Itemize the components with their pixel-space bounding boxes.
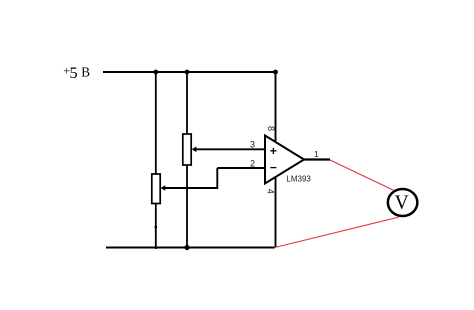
potentiometer R1 body [183, 134, 191, 165]
wire op-amp output stub [304, 158, 330, 160]
svg-text:В: В [81, 65, 90, 80]
wire pin2 horizontal segment [217, 167, 265, 169]
wire middle branch vertical through R1 [186, 72, 188, 248]
wire red measurement lead from ground rail to voltmeter [275, 217, 399, 247]
svg-text:2: 2 [250, 158, 255, 168]
junction dot on +5V rail at R1 branch [185, 70, 190, 75]
junction dot on +5V rail at op-amp supply branch [273, 70, 278, 75]
svg-text:8: 8 [266, 126, 276, 131]
svg-text:5: 5 [70, 63, 78, 82]
wire top +5V rail [103, 71, 276, 73]
wire step to R2 wiper [164, 187, 219, 189]
wire op-amp negative supply vertical [275, 176, 277, 248]
junction dot on +5V rail at R2 branch [153, 70, 158, 75]
junction dot on ground rail [184, 245, 189, 250]
arrowhead R2 wiper [161, 185, 166, 191]
op-amp U1 LM393 triangle [265, 136, 304, 184]
svg-text:−: − [270, 161, 277, 175]
wire op-amp positive supply vertical [275, 72, 277, 143]
voltmeter V body [388, 189, 418, 216]
potentiometer R2 body [152, 174, 160, 204]
node label +5 B [63, 63, 90, 82]
small junction dot on left branch [154, 226, 157, 229]
wire pin3 to R1 wiper [195, 148, 266, 150]
wire bottom ground rail [106, 247, 275, 249]
wire pin2 vertical step [216, 168, 218, 188]
svg-text:1: 1 [314, 149, 319, 159]
svg-text:3: 3 [250, 140, 255, 150]
svg-text:+: + [270, 144, 277, 158]
svg-text:V: V [395, 193, 409, 214]
svg-text:LM393: LM393 [286, 175, 311, 184]
wire red measurement lead from output to voltmeter [330, 160, 394, 190]
arrowhead R1 wiper [192, 147, 197, 153]
wire left branch vertical through R2 [155, 72, 157, 249]
svg-text:4: 4 [265, 189, 275, 194]
